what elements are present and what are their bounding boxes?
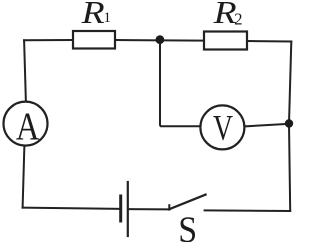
svg-text:R: R [213,0,237,30]
svg-text:A: A [16,105,40,148]
svg-text:S: S [178,210,197,242]
svg-text:V: V [213,108,233,148]
svg-text:R: R [81,0,105,30]
svg-text:1: 1 [104,10,112,26]
svg-text:2: 2 [234,10,242,29]
